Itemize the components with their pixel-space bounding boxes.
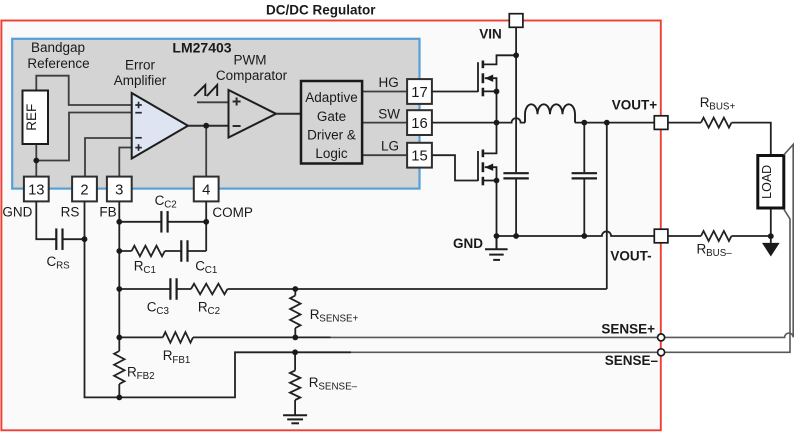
- svg-text:2: 2: [80, 182, 88, 198]
- svg-text:GND: GND: [453, 236, 483, 251]
- svg-text:C: C: [195, 258, 205, 273]
- svg-text:R: R: [310, 307, 320, 322]
- svg-text:REF: REF: [24, 104, 39, 131]
- svg-text:R: R: [697, 241, 707, 256]
- svg-text:Comparator: Comparator: [216, 68, 288, 83]
- svg-text:C: C: [155, 193, 165, 208]
- svg-text:VOUT+: VOUT+: [612, 98, 658, 113]
- svg-text:R: R: [163, 348, 173, 363]
- svg-text:Error: Error: [125, 58, 156, 73]
- svg-text:R: R: [134, 258, 144, 273]
- svg-text:Adaptive: Adaptive: [305, 90, 358, 105]
- svg-text:BUS+: BUS+: [709, 101, 735, 112]
- svg-text:SENSE–: SENSE–: [605, 353, 659, 368]
- svg-text:FB1: FB1: [172, 355, 190, 366]
- svg-text:R: R: [127, 365, 137, 380]
- svg-text:LM27403: LM27403: [172, 40, 231, 56]
- svg-text:RS: RS: [56, 261, 70, 272]
- svg-text:GND: GND: [2, 205, 32, 220]
- svg-text:VIN: VIN: [479, 27, 502, 42]
- svg-text:Logic: Logic: [315, 146, 348, 161]
- svg-text:R: R: [309, 375, 319, 390]
- svg-text:C: C: [47, 254, 57, 269]
- svg-text:SENSE+: SENSE+: [319, 314, 358, 325]
- svg-text:RS: RS: [61, 205, 80, 220]
- svg-text:15: 15: [411, 149, 427, 165]
- svg-text:PWM: PWM: [234, 53, 267, 68]
- svg-text:3: 3: [115, 182, 123, 198]
- svg-text:FB: FB: [99, 205, 116, 220]
- svg-text:C3: C3: [156, 306, 169, 317]
- svg-text:17: 17: [411, 85, 427, 101]
- svg-text:SENSE+: SENSE+: [601, 321, 655, 336]
- svg-text:HG: HG: [379, 75, 399, 90]
- svg-text:LG: LG: [381, 138, 399, 153]
- svg-text:4: 4: [202, 182, 210, 198]
- svg-text:C1: C1: [143, 265, 156, 276]
- svg-text:SENSE–: SENSE–: [318, 382, 357, 393]
- svg-text:Gate: Gate: [317, 109, 346, 124]
- svg-text:SW: SW: [378, 107, 400, 122]
- svg-text:C2: C2: [208, 306, 221, 317]
- svg-text:COMP: COMP: [212, 205, 253, 220]
- svg-text:C2: C2: [164, 199, 177, 210]
- svg-text:DC/DC Regulator: DC/DC Regulator: [266, 2, 376, 17]
- svg-text:16: 16: [411, 116, 427, 132]
- svg-text:Driver &: Driver &: [307, 128, 356, 143]
- svg-text:FB2: FB2: [137, 371, 155, 382]
- svg-text:R: R: [700, 95, 710, 110]
- svg-text:VOUT-: VOUT-: [610, 248, 651, 263]
- svg-text:BUS–: BUS–: [706, 248, 732, 259]
- svg-text:Bandgap: Bandgap: [31, 40, 85, 55]
- svg-text:13: 13: [28, 182, 44, 198]
- svg-text:R: R: [198, 299, 208, 314]
- svg-text:Amplifier: Amplifier: [114, 73, 167, 88]
- svg-text:Reference: Reference: [27, 56, 89, 71]
- svg-text:C1: C1: [205, 265, 218, 276]
- svg-text:C: C: [147, 299, 157, 314]
- svg-text:LOAD: LOAD: [760, 165, 774, 199]
